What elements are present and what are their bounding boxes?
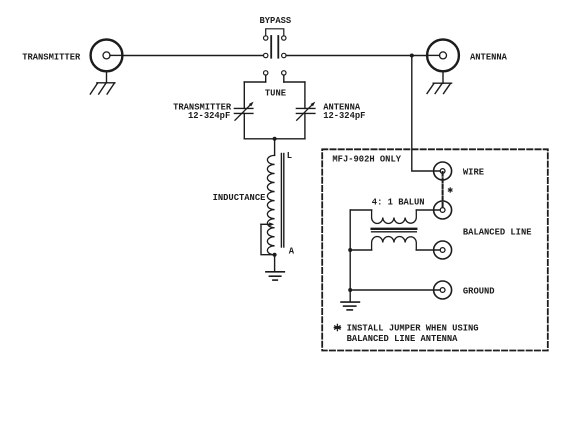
wire: switch pole to tuner output (right stub) [283, 75, 285, 82]
chassis ground (antenna) [427, 71, 452, 93]
wire: antenna junction down to WIRE post [412, 56, 440, 172]
junction: ground branch node [348, 288, 352, 292]
earth ground (balun) [341, 302, 359, 310]
binding post GROUND [434, 281, 452, 299]
junction: inductor bottom node [273, 253, 277, 257]
svg-text:BYPASS: BYPASS [260, 16, 292, 26]
svg-text:TRANSMITTER: TRANSMITTER [22, 52, 81, 62]
wire: balun secondary left lead [350, 249, 371, 251]
chassis ground (transmitter) [90, 71, 115, 94]
binding post WIRE [434, 162, 452, 180]
svg-text:MFJ-902H ONLY: MFJ-902H ONLY [332, 155, 401, 165]
binding post BALANCED LINE (bottom) [434, 241, 452, 259]
coax connector J2 ANTENNA [427, 40, 459, 72]
wire: balun common down-leg [349, 210, 351, 302]
wire: balun secondary right lead to balanced post (bottom) [416, 249, 440, 251]
dashed jumper W1 (wire post to balanced post) [442, 172, 444, 209]
svg-text:L: L [287, 151, 292, 161]
wire: balun primary right lead to balanced post (top) [416, 209, 440, 211]
dashed enclosure MFJ-902H ONLY [322, 149, 548, 350]
earth ground (inductor) [266, 272, 284, 280]
transformer T1 4:1 balun, primary winding [372, 210, 417, 224]
junction: balun secondary to down-leg [348, 248, 352, 252]
svg-text:4: 1 BALUN: 4: 1 BALUN [372, 198, 425, 208]
variable capacitor C1 (transmitter tune) [234, 102, 253, 121]
svg-text:INDUCTANCE: INDUCTANCE [213, 193, 266, 203]
wire: inductor bottom to earth ground [274, 255, 276, 272]
transformer T1 secondary winding [372, 237, 417, 251]
wire: balun primary left lead [350, 209, 371, 211]
svg-text:12-324pF: 12-324pF [323, 111, 365, 121]
svg-text:ANTENNA: ANTENNA [470, 52, 508, 62]
tap wiper arm on L1 [261, 222, 275, 254]
wire: bypass switch to antenna [286, 55, 427, 57]
wire: switch pole to tuner input (left stub) [265, 75, 267, 82]
inductor L1 roller coil [267, 154, 283, 255]
junction: antenna feed node [410, 54, 414, 58]
svg-text:GROUND: GROUND [463, 287, 495, 297]
variable capacitor C2 (antenna tune) [296, 102, 315, 121]
svg-text:BALANCED LINE ANTENNA: BALANCED LINE ANTENNA [347, 334, 459, 344]
jumper asterisk marker [448, 188, 452, 192]
wire: box bottom to inductor top [274, 139, 276, 156]
svg-text:A: A [289, 247, 295, 257]
tuner enclosure box TUNE [244, 82, 305, 139]
transformer T1 core [372, 229, 417, 232]
note asterisk marker [334, 324, 340, 330]
svg-text:INSTALL JUMPER WHEN USING: INSTALL JUMPER WHEN USING [347, 323, 479, 333]
wire: transmitter to bypass switch [122, 55, 263, 57]
wire: ground node to ground post [350, 289, 440, 291]
coax connector J1 TRANSMITTER [91, 40, 123, 72]
svg-text:12-324pF: 12-324pF [188, 111, 230, 121]
svg-text:TUNE: TUNE [265, 88, 286, 98]
svg-text:WIRE: WIRE [463, 168, 484, 178]
switch S1 BYPASS (DPDT slide) [264, 29, 286, 75]
binding post BALANCED LINE (top) [434, 201, 452, 219]
svg-text:BALANCED LINE: BALANCED LINE [463, 227, 532, 237]
junction: tuner box bottom node [273, 137, 277, 141]
